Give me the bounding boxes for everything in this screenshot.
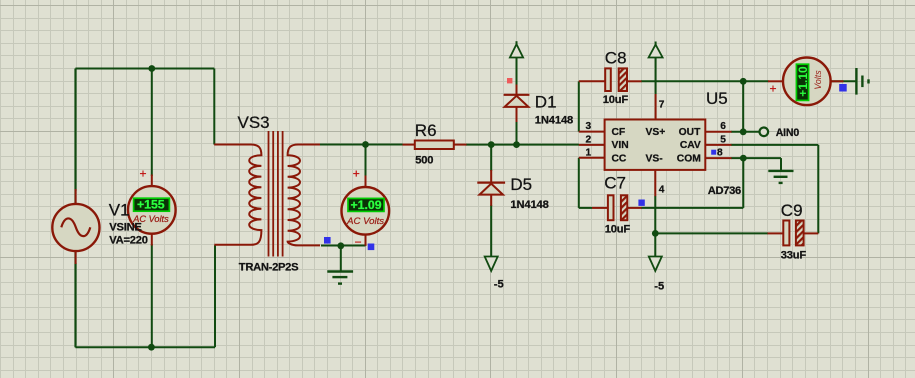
svg-text:C7: C7: [604, 174, 626, 193]
svg-text:VS-: VS-: [646, 154, 664, 165]
svg-text:AD736: AD736: [708, 185, 741, 197]
svg-text:5: 5: [720, 134, 726, 145]
svg-text:VA=220: VA=220: [109, 234, 147, 246]
svg-text:D1: D1: [535, 93, 557, 112]
svg-text:TRAN-2P2S: TRAN-2P2S: [239, 262, 299, 274]
svg-text:CF: CF: [612, 127, 626, 138]
svg-text:3: 3: [586, 121, 592, 132]
svg-text:-5: -5: [654, 281, 664, 293]
svg-text:+155: +155: [137, 198, 165, 212]
svg-text:R6: R6: [415, 121, 437, 140]
svg-text:D5: D5: [510, 175, 532, 194]
svg-text:4: 4: [659, 184, 665, 195]
svg-text:VIN: VIN: [612, 140, 629, 151]
svg-text:VS+: VS+: [646, 127, 666, 138]
svg-text:COM: COM: [677, 154, 701, 165]
svg-text:Volts: Volts: [813, 70, 823, 90]
svg-text:U5: U5: [706, 89, 728, 108]
svg-text:+1.10: +1.10: [796, 66, 810, 97]
svg-text:1: 1: [586, 147, 592, 158]
svg-text:CC: CC: [612, 154, 627, 165]
svg-text:+: +: [770, 82, 777, 96]
svg-text:7: 7: [659, 99, 665, 110]
svg-text:AIN0: AIN0: [776, 127, 800, 139]
svg-text:−: −: [355, 235, 362, 249]
svg-text:10uF: 10uF: [603, 94, 629, 106]
svg-text:AC Volts: AC Volts: [346, 216, 384, 227]
svg-text:6: 6: [720, 121, 726, 132]
svg-text:+: +: [353, 167, 360, 181]
svg-text:VS3: VS3: [238, 113, 270, 132]
svg-text:10uF: 10uF: [605, 224, 631, 236]
svg-text:1N4148: 1N4148: [510, 199, 548, 211]
svg-text:+: +: [140, 167, 147, 181]
svg-text:1N4148: 1N4148: [535, 115, 573, 127]
svg-text:500: 500: [415, 155, 433, 167]
svg-text:-5: -5: [494, 279, 504, 291]
svg-text:C9: C9: [781, 201, 803, 220]
svg-text:8: 8: [717, 148, 723, 159]
svg-text:CAV: CAV: [680, 140, 701, 151]
svg-text:2: 2: [586, 134, 592, 145]
svg-text:C8: C8: [605, 49, 627, 68]
svg-text:AC Volts: AC Volts: [132, 214, 169, 224]
svg-text:V1: V1: [109, 200, 130, 219]
svg-text:33uF: 33uF: [781, 250, 807, 262]
svg-text:+1.09: +1.09: [350, 198, 381, 212]
svg-text:OUT: OUT: [679, 127, 701, 138]
